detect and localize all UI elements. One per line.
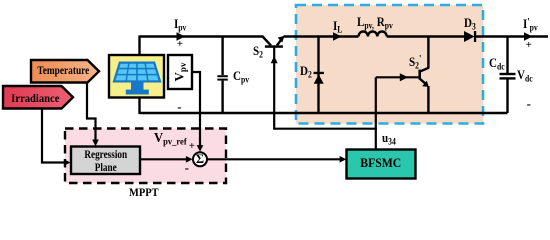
inductor L_pv R_pv (359, 32, 387, 37)
label S2 (253, 44, 263, 60)
label Temperature (31, 60, 94, 83)
wire: top rail from PV to S2 (140, 35, 264, 37)
label MPPT (129, 186, 159, 198)
wire: Irradiance to Regression Plane (42, 109, 68, 163)
label S2' (409, 55, 421, 71)
summer sigma symbol (193, 153, 207, 167)
Regression Plane block (71, 147, 140, 175)
label Irradiance (4, 86, 64, 109)
label L_pv, R_pv (357, 15, 393, 31)
wire: top rail from inductor to D3 (387, 35, 465, 37)
Irradiance input block (3, 86, 73, 109)
label BFSMC (347, 150, 416, 179)
boost converter dashed box (296, 5, 483, 124)
current arrow I_pv (177, 32, 186, 40)
wire: S2 base drive (273, 48, 275, 129)
summing junction (193, 152, 207, 166)
label Regression Plane (71, 147, 140, 175)
wire: PV bottom lead (138, 97, 140, 115)
diode D2 branch wire (317, 37, 319, 114)
Temperature input block (31, 60, 99, 83)
label C_pv (233, 69, 249, 85)
node + (DC positive) (526, 40, 532, 51)
label I_L (333, 19, 342, 35)
label D3 (464, 16, 476, 32)
wire: Temperature to Regression Plane (87, 83, 96, 145)
transistor S2' (418, 68, 428, 87)
wire: gate drive net u34 (273, 77, 377, 149)
BFSMC controller block (347, 150, 416, 179)
wire: PV top lead (138, 36, 140, 57)
label u_34 (382, 131, 396, 147)
wire: top rail from D3 to output (476, 35, 548, 37)
node - (summer input) (185, 161, 189, 174)
wire: S2' base lead (376, 76, 419, 78)
label I_pv (174, 17, 186, 33)
label V_pv (rotated) (168, 55, 192, 89)
wire: Regression Plane to summer (140, 158, 190, 160)
label I'_pv (523, 17, 538, 33)
capacitor C_dc branch (500, 37, 516, 114)
label D2 (300, 64, 312, 80)
wire: S2' collector riser (427, 36, 429, 69)
current arrow I'_pv (524, 32, 533, 40)
voltmeter box V_pv (168, 55, 192, 89)
wire: bottom rail (140, 112, 508, 114)
node - (PV negative) (177, 100, 181, 113)
wire: S2' emitter riser (427, 86, 429, 113)
solar PV panel box (109, 55, 164, 98)
wire: top rail from S2 to inductor (284, 35, 359, 37)
label V_pv_ref (154, 132, 187, 148)
node + (summer input) (189, 142, 195, 153)
label V_dc (517, 68, 533, 84)
wire: summer to BFSMC (207, 158, 344, 160)
solar PV panel icon (113, 62, 162, 95)
current arrow I_L (333, 32, 342, 40)
label C_dc (489, 56, 505, 72)
capacitor C_pv (217, 37, 227, 114)
MPPT dashed box (65, 129, 226, 184)
transistor S2 (263, 36, 285, 48)
node - (DC negative) (527, 97, 531, 110)
diode D2 (314, 72, 324, 84)
diode D3 (464, 31, 476, 42)
node + (PV positive) (177, 39, 183, 50)
wire: V_pv sense to summer (192, 72, 200, 150)
